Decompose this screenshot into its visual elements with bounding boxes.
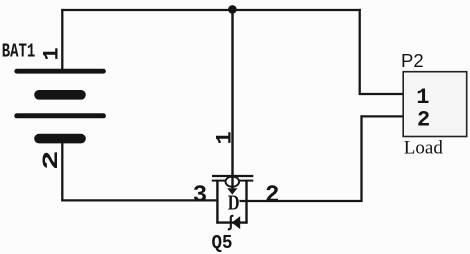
svg-text:2: 2 [417, 108, 430, 133]
wire left-lower vertical from battery bottom [61, 142, 63, 202]
svg-text:2: 2 [39, 151, 64, 171]
svg-text:1: 1 [213, 131, 238, 144]
wire right-lower vertical from P2 pin 2 down [360, 115, 362, 201]
wire horizontal into P2 pin 1 [359, 93, 404, 95]
svg-text:BAT1: BAT1 [2, 41, 36, 63]
junction node dot [228, 5, 237, 14]
Q5 body diode triangle [232, 216, 240, 229]
Q5 drain stem (pin 2 side) [245, 180, 247, 224]
svg-text:1: 1 [40, 47, 65, 60]
wire left vertical from top net to BAT1 pin 1 [61, 9, 63, 71]
Q5 channel bar left segment [212, 180, 226, 182]
Q5 channel bar right segment [239, 180, 254, 182]
svg-text:P2: P2 [401, 50, 424, 71]
connector P2 box [403, 72, 467, 137]
svg-text:1: 1 [416, 85, 429, 110]
BAT1 short plate 2 [39, 90, 81, 100]
svg-text:2: 2 [265, 183, 279, 210]
wire right vertical down to P2 pin 1 [359, 9, 361, 94]
svg-text:3: 3 [193, 183, 207, 210]
wire top horizontal net [61, 9, 361, 11]
Q5 body diode schottky cathode bar [228, 216, 234, 229]
BAT1 long plate 1 [17, 69, 104, 74]
BAT1 short plate 4 [39, 134, 81, 144]
svg-text:Load: Load [404, 138, 444, 159]
BAT1 long plate 3 [17, 113, 104, 118]
wire horizontal from P2 pin 2 [362, 115, 404, 117]
wire net 3: BAT1 pin 2 to Q5 pin 3 [62, 199, 217, 201]
Q5 gate bar [212, 175, 253, 177]
wire center vertical to Q5 pin 1 (gate) [231, 10, 233, 189]
Q5 substrate loop [226, 177, 240, 187]
svg-text:D: D [228, 190, 240, 214]
transistor Q5 (P-MOSFET with body diode) [212, 176, 254, 229]
svg-text:Q5: Q5 [212, 232, 233, 254]
battery BAT1 plates [17, 71, 104, 138]
Q5 source stem (pin 3 side) [216, 180, 218, 224]
wire net 2: Q5 pin 2 to lower vertical [240, 200, 363, 202]
Q5 substrate arrow [227, 188, 237, 194]
Q5 body diode bottom wire [216, 221, 247, 223]
